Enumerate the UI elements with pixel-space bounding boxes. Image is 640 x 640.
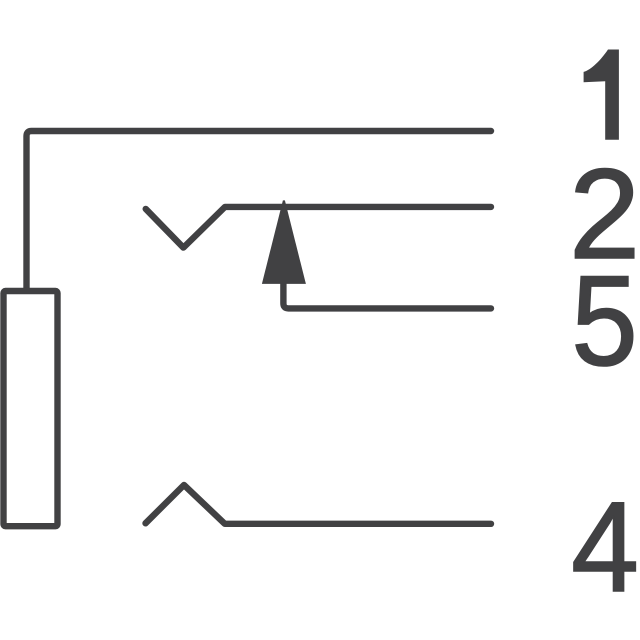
wire pin 1 (tip contact lead into jack body) — [27, 131, 492, 288]
svg-text:4: 4 — [571, 476, 639, 618]
jack body J1 (plug/sleeve rectangle) — [4, 291, 58, 526]
wire pin 5 (wiper lead with corner up to arrow) — [283, 282, 491, 308]
pin number 1 (custom helvetica-style glyph) — [584, 50, 619, 140]
wire pin 2 (normally-closed spring contact with V flex) — [146, 207, 491, 248]
wire pin 4 (normally-open spring contact with peak flex) — [146, 485, 492, 524]
svg-text:5: 5 — [571, 250, 638, 393]
arrowhead (wiper arrow touching pin 2 contact) — [262, 200, 306, 284]
